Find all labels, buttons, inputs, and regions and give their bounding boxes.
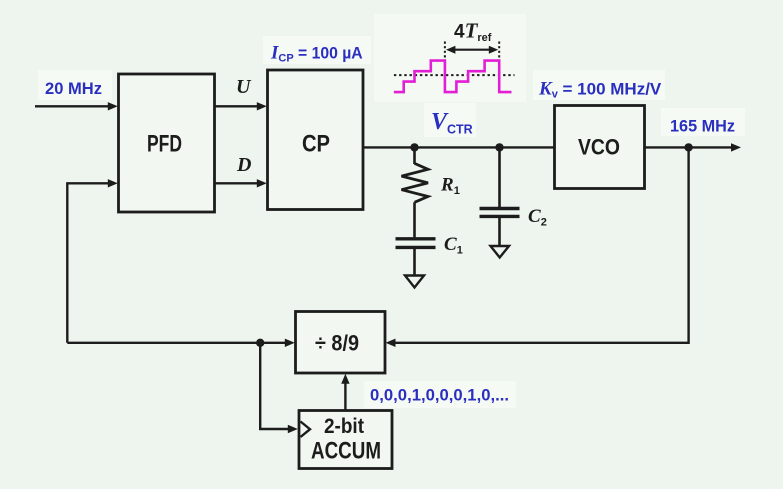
svg-text:D: D: [236, 154, 251, 176]
wire: feedback up the left side into PFD: [67, 179, 118, 343]
wire: R1 top stub: [413, 147, 416, 164]
ground (C2): [491, 246, 510, 258]
wire: accumulator clock from feedback node: [260, 343, 298, 433]
svg-text:U: U: [236, 76, 252, 98]
svg-text:ACCUM: ACCUM: [311, 438, 381, 465]
svg-text:PFD: PFD: [147, 131, 182, 158]
wire: D output from PFD to CP: [215, 179, 267, 187]
svg-text:÷ 8/9: ÷ 8/9: [315, 331, 359, 356]
wire: C2 to ground: [498, 216, 501, 246]
wire: C1 to ground: [413, 247, 416, 276]
resistor R1: [402, 163, 429, 202]
wire: accumulator carry output to divider modulus control: [341, 374, 349, 411]
block VCO: [555, 106, 645, 189]
node: junction at C2: [495, 143, 503, 151]
block PFD: [119, 74, 215, 212]
capacitor C1: [396, 239, 436, 248]
wire: feedback from output node to divider input: [386, 147, 689, 347]
waveform baseline (dotted): [394, 74, 515, 76]
svg-text:VCO: VCO: [578, 135, 620, 160]
node: feedback junction to accumulator clock: [256, 339, 264, 347]
svg-text:2-bit: 2-bit: [324, 415, 364, 438]
svg-text:20 MHz: 20 MHz: [45, 79, 102, 98]
wire: C2 top stub: [498, 147, 501, 207]
svg-text:165 MHz: 165 MHz: [670, 117, 735, 136]
waveform period markers (dotted): [445, 42, 499, 61]
svg-text:CP: CP: [302, 131, 330, 158]
wire: divider input from feedback bus (left horizontal): [67, 339, 294, 347]
ground (C1): [405, 276, 424, 288]
wire: U output from PFD to CP: [215, 102, 267, 110]
block 2-bit ACCUM: [299, 411, 392, 469]
block CP: [268, 70, 364, 210]
svg-text:0,0,0,1,0,0,0,1,0,...: 0,0,0,1,0,0,0,1,0,...: [370, 386, 509, 405]
capacitor C2: [480, 209, 520, 217]
wire: 20 MHz reference input to PFD: [35, 102, 118, 110]
wire: R1 to C1: [413, 202, 416, 237]
node: V_CTR junction at R1: [410, 143, 418, 151]
clock input triangle (2-bit ACCUM): [301, 422, 311, 438]
node: output junction: [684, 143, 692, 151]
wire: VCO output to arrow: [645, 143, 742, 151]
dimension arrow: 4T_ref span: [446, 46, 498, 54]
waveform: accumulator phase ramp: [394, 61, 512, 93]
block divider 8/9: [296, 312, 386, 374]
wire: CP output to VCO input (V_CTR net): [363, 146, 555, 148]
